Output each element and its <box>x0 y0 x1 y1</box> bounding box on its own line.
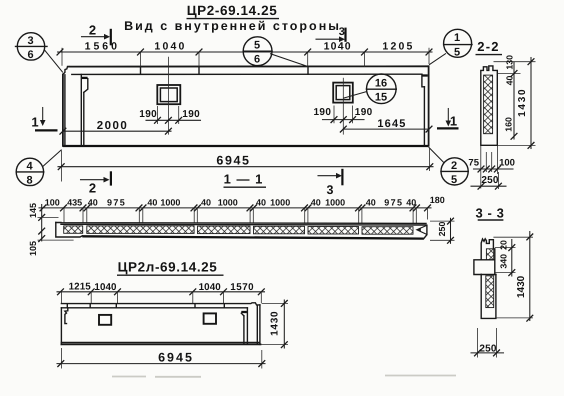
svg-text:2000: 2000 <box>97 120 129 132</box>
bottom elevation opening holes <box>99 315 111 325</box>
svg-text:1000: 1000 <box>270 197 290 207</box>
svg-text:250: 250 <box>479 344 497 355</box>
callout 3/6 <box>16 33 63 72</box>
section label 1-1 <box>224 172 267 188</box>
svg-text:1 — 1: 1 — 1 <box>224 172 264 187</box>
svg-text:1560: 1560 <box>85 40 120 52</box>
dims 190/190 at O1 <box>139 106 200 124</box>
cut mark 3 top <box>316 26 346 42</box>
svg-text:1000: 1000 <box>160 197 180 207</box>
opening O2 (square hole right) <box>333 83 353 103</box>
strip body <box>56 223 427 239</box>
svg-text:6945: 6945 <box>158 351 194 365</box>
callout 1/5 <box>430 29 473 64</box>
section 2-2 dims bottom <box>468 146 515 190</box>
svg-text:ЦР2-69.14.25: ЦР2-69.14.25 <box>187 3 278 18</box>
svg-text:1000: 1000 <box>325 197 345 207</box>
section 2-2 title <box>476 39 503 55</box>
svg-text:20: 20 <box>498 240 508 250</box>
svg-text:1040: 1040 <box>94 282 117 293</box>
center line of O2 <box>342 78 344 135</box>
svg-text:ЦР2л-69.14.25: ЦР2л-69.14.25 <box>118 260 218 275</box>
svg-text:5: 5 <box>451 174 457 186</box>
strip dim texts <box>45 195 445 207</box>
bottom elevation 1430 dim <box>261 300 288 348</box>
section 3-3 dims right <box>493 232 533 322</box>
svg-text:145: 145 <box>28 203 38 218</box>
callout 16/15 <box>344 74 396 104</box>
right jamb groove <box>422 74 428 145</box>
dim 6945 main elevation <box>58 149 433 182</box>
svg-text:15: 15 <box>375 92 387 104</box>
top-left chamfer bump <box>63 67 69 75</box>
svg-text:6: 6 <box>27 49 33 61</box>
cut mark 3 bottom <box>318 169 342 197</box>
strip right dim 250 <box>430 218 455 244</box>
callout 5/6 <box>243 37 308 67</box>
section 3-3 title <box>475 206 504 221</box>
svg-text:130: 130 <box>505 55 515 70</box>
svg-text:975: 975 <box>107 197 126 207</box>
svg-text:5: 5 <box>254 40 260 52</box>
svg-text:340: 340 <box>499 254 509 269</box>
svg-text:190: 190 <box>182 109 200 120</box>
svg-text:5: 5 <box>454 46 460 58</box>
top flange joint ticks <box>141 67 309 75</box>
svg-text:100: 100 <box>45 197 60 207</box>
strip left dim column 145/105 <box>28 203 74 256</box>
dim 2000 <box>60 120 172 135</box>
cut mark 1 left <box>31 108 57 131</box>
svg-text:2: 2 <box>451 160 457 172</box>
svg-text:160: 160 <box>503 117 513 132</box>
svg-text:1645: 1645 <box>377 118 406 130</box>
svg-text:Вид с внутренней стороны: Вид с внутренней стороны <box>124 19 341 33</box>
svg-text:6945: 6945 <box>216 154 250 168</box>
svg-text:1570: 1570 <box>230 282 254 293</box>
bottom elevation left jamb <box>65 308 68 324</box>
svg-text:1040: 1040 <box>154 40 186 52</box>
svg-text:4: 4 <box>26 160 33 172</box>
svg-text:1215: 1215 <box>69 281 92 292</box>
svg-text:1000: 1000 <box>218 197 238 207</box>
svg-text:8: 8 <box>26 174 32 186</box>
cut mark 2 bottom <box>81 171 111 195</box>
strip dim line <box>39 205 431 225</box>
svg-text:40: 40 <box>147 197 157 207</box>
svg-text:1430: 1430 <box>517 88 528 117</box>
main elevation panel outline <box>63 66 429 146</box>
svg-text:1: 1 <box>450 114 457 129</box>
center line of O1 <box>167 57 169 135</box>
svg-text:1205: 1205 <box>382 40 414 52</box>
section 2-2 dims right <box>494 55 536 149</box>
top dimension line <box>57 48 433 67</box>
callout 4/8 <box>16 150 61 186</box>
left jamb groove <box>81 75 88 146</box>
section 3-3 body <box>474 239 496 319</box>
svg-text:975: 975 <box>384 197 403 207</box>
bottom elevation panel outline <box>61 303 260 345</box>
svg-text:100: 100 <box>499 158 515 169</box>
svg-text:40: 40 <box>201 197 211 207</box>
svg-text:3 - 3: 3 - 3 <box>475 206 504 221</box>
svg-text:250: 250 <box>481 175 499 186</box>
bottom elevation dim texts <box>69 281 255 293</box>
section 3-3 dim 250 bottom <box>471 328 504 358</box>
svg-text:190: 190 <box>139 109 157 120</box>
second top edge line <box>72 73 422 75</box>
svg-text:6: 6 <box>254 54 260 66</box>
callout 2/5 <box>429 148 468 187</box>
dims 190/190 at O2 <box>313 106 372 124</box>
svg-text:1040: 1040 <box>199 282 222 293</box>
svg-text:3: 3 <box>327 183 334 197</box>
svg-text:105: 105 <box>28 241 38 256</box>
svg-text:40: 40 <box>311 197 321 207</box>
svg-text:16: 16 <box>375 78 387 90</box>
cut mark 2 top <box>82 23 111 46</box>
bottom elevation 6945 dim <box>57 348 265 369</box>
cut mark 1 right <box>437 109 459 129</box>
dim 1645 <box>340 118 433 133</box>
svg-text:2: 2 <box>89 181 96 196</box>
svg-text:1430: 1430 <box>270 311 281 336</box>
bottom elevation right jamb <box>241 308 247 344</box>
svg-text:190: 190 <box>313 107 331 118</box>
svg-text:2-2: 2-2 <box>477 39 499 54</box>
bottom elevation top dim line <box>57 288 265 303</box>
title ЦР2л-69.14.25 <box>117 260 224 276</box>
svg-text:40: 40 <box>505 76 515 86</box>
faint scan artifacts bottom <box>112 376 456 377</box>
svg-text:3: 3 <box>27 35 33 47</box>
svg-text:190: 190 <box>355 107 373 118</box>
svg-text:1040: 1040 <box>324 40 352 52</box>
svg-text:2: 2 <box>89 23 96 38</box>
svg-text:40: 40 <box>256 197 266 207</box>
svg-text:1: 1 <box>454 32 460 44</box>
title ЦР2-69.14.25 <box>187 3 280 19</box>
svg-text:40: 40 <box>366 197 376 207</box>
svg-text:3: 3 <box>339 26 345 38</box>
svg-text:1: 1 <box>31 115 38 130</box>
svg-text:250: 250 <box>437 222 447 237</box>
svg-text:435: 435 <box>67 197 82 207</box>
svg-text:75: 75 <box>468 157 479 168</box>
opening O1 (square hole left) <box>157 85 180 104</box>
svg-text:180: 180 <box>430 195 445 205</box>
svg-text:1430: 1430 <box>516 275 527 298</box>
top joint ticks <box>67 304 224 308</box>
strip hatch blocks <box>64 226 413 234</box>
section 2-2 body <box>481 66 498 145</box>
